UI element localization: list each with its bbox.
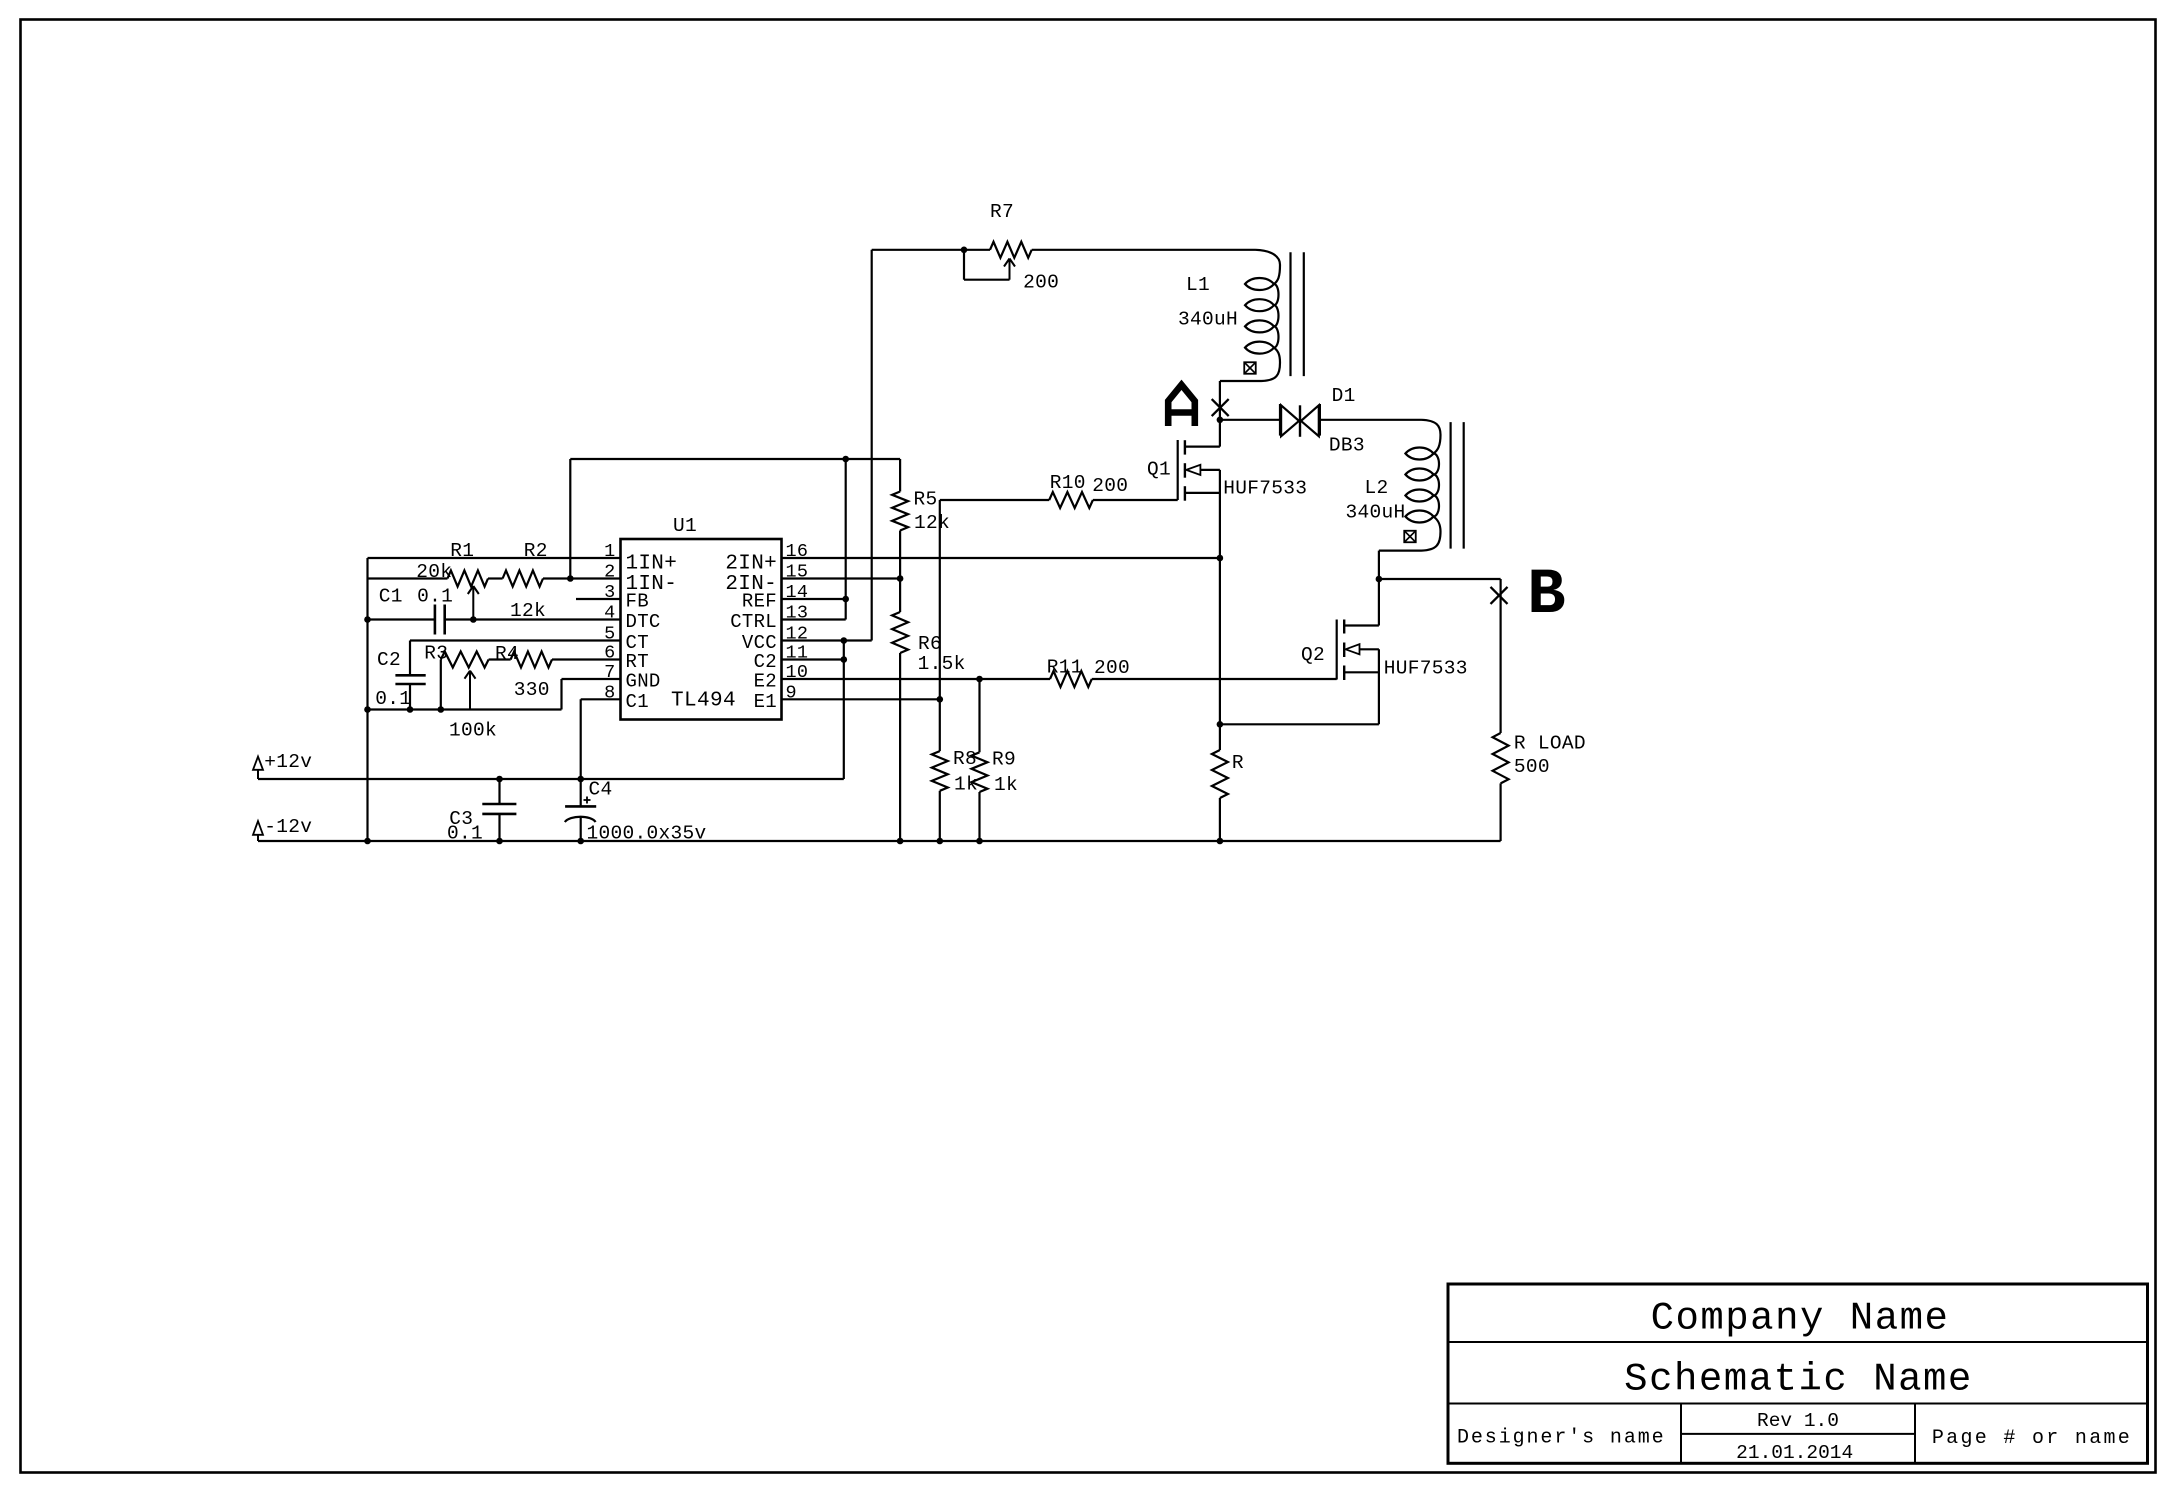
wire R7 wiper arrow	[1009, 259, 1011, 280]
svg-text:1k: 1k	[954, 774, 978, 796]
junction Q2 source/R line	[1217, 721, 1224, 728]
wire L1 bottom to node A	[1220, 380, 1262, 382]
svg-text:E2: E2	[754, 671, 777, 693]
wire pin14 REF	[782, 598, 846, 600]
svg-text:R10: R10	[1050, 472, 1086, 494]
junction top wire/REF-CTRL vertical	[842, 456, 849, 463]
wire FB stub pin3	[576, 598, 621, 600]
wire pin10 E2 row left part	[782, 678, 1051, 680]
junction R7 wiper tie	[961, 247, 968, 254]
resistor R	[1212, 750, 1228, 798]
svg-text:0.1: 0.1	[375, 688, 411, 710]
wire R11 to Q2 gate	[1092, 678, 1337, 680]
wire R1-R2 link	[488, 577, 503, 579]
node A label	[1165, 385, 1198, 426]
wire R7 row left	[872, 249, 990, 251]
svg-text:21.01.2014: 21.01.2014	[1736, 1442, 1853, 1464]
junction C2/ground rail	[407, 706, 414, 713]
resistor R11 200	[1050, 671, 1092, 687]
svg-text:1000.0x35v: 1000.0x35v	[587, 823, 707, 845]
wire R2 to pin2	[543, 577, 621, 579]
wire C1 to pin4 DTC	[445, 618, 621, 620]
junction pin11/+12 vertical	[841, 656, 848, 663]
svg-text:D1: D1	[1332, 385, 1356, 407]
svg-text:R1: R1	[450, 540, 474, 562]
wire D1 to L2	[1321, 419, 1422, 421]
svg-text:R3: R3	[424, 643, 448, 665]
inductor L2 340uH	[1405, 448, 1433, 460]
wire R5/R10 vertical x939.8	[939, 500, 941, 751]
svg-text:L2: L2	[1365, 477, 1389, 499]
svg-text:E1: E1	[754, 691, 777, 713]
wire pin11 C2 to +12 vertical	[782, 658, 844, 660]
svg-text:Page # or name: Page # or name	[1932, 1427, 2132, 1450]
svg-text:Designer's name: Designer's name	[1457, 1427, 1666, 1450]
svg-text:20k: 20k	[416, 561, 452, 583]
svg-text:R6: R6	[918, 633, 942, 655]
wire L2 bottom	[1379, 549, 1422, 551]
svg-text:REF: REF	[742, 591, 777, 613]
svg-text:500: 500	[1514, 756, 1550, 778]
wire -12v bottom rail	[258, 840, 1501, 842]
transformer core L2	[1449, 422, 1451, 548]
svg-text:340uH: 340uH	[1346, 502, 1406, 524]
resistor R9 1k	[978, 679, 980, 752]
svg-text:0.1: 0.1	[447, 823, 483, 845]
wire 1IN- net vertical x570	[569, 459, 571, 579]
junction pin16/Q1 source	[1217, 555, 1224, 562]
svg-text:Company Name: Company Name	[1651, 1297, 1950, 1341]
resistor R3	[441, 652, 489, 668]
svg-text:FB: FB	[626, 591, 649, 613]
power symbol -12v	[253, 821, 263, 835]
svg-text:C4: C4	[589, 779, 613, 801]
junction node A	[1217, 417, 1224, 424]
svg-text:R4: R4	[495, 643, 519, 665]
wire R3 left lead down	[440, 660, 442, 710]
resistor R5 12k	[899, 459, 901, 492]
inductor L1 340uH	[1245, 278, 1274, 290]
svg-text:100k: 100k	[449, 720, 497, 742]
resistor R10 200	[940, 499, 1049, 501]
svg-text:Q2: Q2	[1301, 644, 1325, 666]
wire +12v rail	[258, 778, 844, 780]
wire node A to D1	[1220, 419, 1279, 421]
wire REF-CTRL vertical x845.7	[845, 459, 847, 620]
junction R bottom/-12 rail	[1217, 838, 1224, 845]
wire Q2 source to R line	[1220, 723, 1379, 725]
wire pin8 C1 to +12 rail	[581, 698, 621, 700]
resistor R6 1.5k	[899, 579, 901, 613]
power symbol +12v	[253, 757, 263, 770]
svg-text:TL494: TL494	[671, 690, 736, 713]
svg-text:C1: C1	[626, 691, 649, 713]
svg-text:200: 200	[1023, 272, 1059, 294]
capacitor C3 0.1	[498, 779, 500, 804]
svg-text:R: R	[1232, 752, 1244, 774]
junction VCC/+12 vertical	[841, 637, 848, 644]
wire R1 row left lead	[368, 577, 448, 579]
svg-text:R11: R11	[1047, 657, 1083, 679]
svg-text:GND: GND	[626, 671, 661, 693]
junction R6 bottom/-12 rail	[897, 838, 904, 845]
capacitor C2 0.1	[395, 674, 425, 677]
wire R7 wiper loop	[963, 250, 965, 280]
wire R3-R4 link	[489, 658, 511, 660]
svg-text:C2: C2	[377, 649, 401, 671]
svg-text:Rev 1.0: Rev 1.0	[1757, 1410, 1839, 1432]
svg-text:1k: 1k	[994, 774, 1018, 796]
svg-text:R2: R2	[524, 540, 548, 562]
svg-text:0.1: 0.1	[417, 586, 453, 608]
svg-text:R8: R8	[953, 748, 977, 770]
resistor R7 200 (pot)	[990, 242, 1032, 258]
svg-text:Q1: Q1	[1147, 459, 1171, 481]
svg-text:B: B	[1527, 560, 1565, 632]
wire wiper arrow R1/R2	[472, 586, 474, 620]
wire VCC feeder vertical x871.7	[871, 250, 873, 641]
svg-text:R7: R7	[990, 201, 1014, 223]
svg-text:+12v: +12v	[264, 751, 312, 773]
junction bus/-12v rail	[364, 838, 371, 845]
resistor R LOAD 500	[1493, 733, 1509, 783]
wire pin16 2IN+ row	[782, 557, 1220, 559]
wire pin5 CT to C2	[410, 639, 621, 641]
wire R4 to pin6 RT	[552, 658, 621, 660]
junction R8 bottom/-12 rail	[937, 838, 944, 845]
junction E1/R8 line	[937, 696, 944, 703]
junction R2/pin2/top feedback	[567, 575, 574, 582]
svg-text:-12v: -12v	[264, 816, 312, 838]
capacitor C1 0.1	[434, 605, 437, 635]
svg-text:DB3: DB3	[1329, 435, 1365, 457]
wire Q1 source/pin16 down to R	[1219, 558, 1221, 750]
svg-text:R LOAD: R LOAD	[1514, 733, 1586, 755]
junction L2/Q2 drain/node B	[1376, 576, 1383, 583]
wire pin13 CTRL	[782, 618, 846, 620]
transistor Q1 HUF7533	[1177, 440, 1179, 500]
wire pin12 VCC to feeder	[782, 639, 872, 641]
wire bus to C1	[368, 618, 435, 620]
wire C2 bottom to ground rail	[409, 684, 411, 710]
junction REF row	[842, 596, 849, 603]
resistor R8 1k	[932, 751, 948, 791]
svg-text:L1: L1	[1186, 274, 1210, 296]
svg-text:U1: U1	[673, 515, 697, 537]
resistor R2 12k	[503, 571, 543, 587]
wire ground rail	[368, 708, 562, 710]
svg-text:Schematic Name: Schematic Name	[1624, 1357, 1973, 1401]
junction C3 bottom/-12 rail	[496, 838, 503, 845]
wire +12 vertical x843.8 down to rail	[843, 641, 845, 780]
svg-text:200: 200	[1094, 657, 1130, 679]
junction C4 top/+12 rail	[577, 776, 584, 783]
resistor R1 20k	[448, 571, 489, 587]
svg-text:HUF7533: HUF7533	[1223, 478, 1307, 500]
wire left bus vertical	[366, 558, 368, 841]
junction R9 bottom/-12 rail	[976, 838, 983, 845]
junction bus/ground rail	[364, 706, 371, 713]
svg-text:12k: 12k	[914, 512, 950, 534]
wire 1IN- net top horizontal	[570, 458, 900, 460]
transformer core L1	[1289, 252, 1291, 376]
junction R3/ground rail	[438, 706, 445, 713]
wire wiper arrow R3/R4	[469, 671, 471, 710]
wire to node B / R LOAD	[1379, 578, 1501, 580]
svg-text:HUF7533: HUF7533	[1384, 658, 1468, 680]
L1 polarity mark	[1244, 362, 1256, 374]
wire pin15 2IN- row	[782, 577, 901, 579]
junction bus/DTC row	[364, 616, 371, 623]
junction C4 bottom/-12 rail	[577, 838, 584, 845]
wire R7 to L1	[1032, 249, 1256, 251]
diode D1 DB3 (diac)	[1279, 404, 1281, 436]
junction wiper/DTC row	[470, 616, 477, 623]
junction C3 top/+12 rail	[496, 776, 503, 783]
svg-text:C1: C1	[379, 586, 403, 608]
node A X mark	[1212, 399, 1229, 416]
svg-text:1.5k: 1.5k	[918, 653, 966, 675]
svg-text:CTRL: CTRL	[730, 611, 777, 633]
svg-text:200: 200	[1092, 475, 1128, 497]
L2 polarity mark	[1404, 531, 1416, 543]
wire pin1 row to bus	[368, 557, 621, 559]
capacitor C4 1000.0x35v polarized	[580, 779, 582, 806]
svg-text:DTC: DTC	[626, 611, 661, 633]
svg-text:340uH: 340uH	[1178, 309, 1238, 331]
IC U1 TL494 body	[621, 539, 782, 720]
resistor R4 330	[511, 652, 552, 668]
junction R5/R6/pin15	[897, 575, 904, 582]
transistor Q2 HUF7533	[1336, 620, 1338, 680]
wire pin9 E1 row	[782, 698, 940, 700]
svg-text:330: 330	[514, 679, 550, 701]
node B X mark	[1491, 587, 1508, 604]
svg-text:R9: R9	[992, 749, 1016, 771]
svg-text:R5: R5	[914, 489, 938, 511]
junction E2/R9 top	[976, 676, 983, 683]
